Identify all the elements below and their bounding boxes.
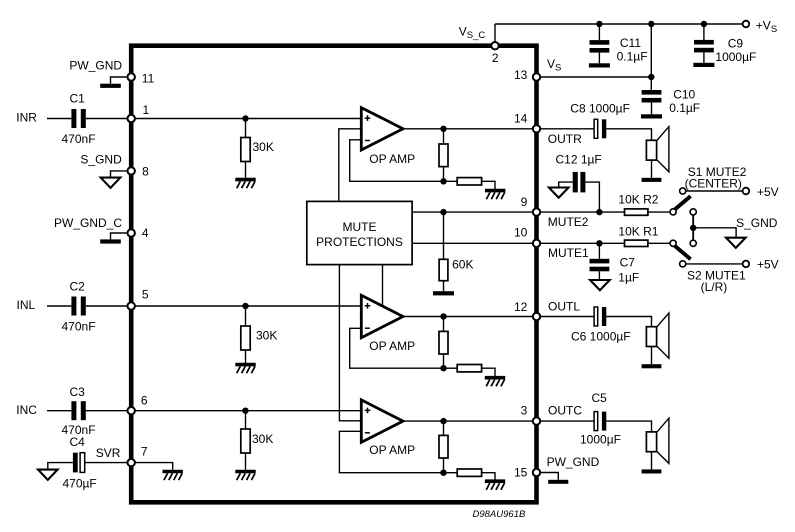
- wire U2 fb resistor bottom lead: [443, 354, 445, 368]
- wire U1 fb resistor top lead: [443, 129, 445, 144]
- resistor 30K (INC): [241, 429, 250, 453]
- pin 4: [128, 229, 135, 236]
- svg-text:(CENTER): (CENTER): [685, 176, 742, 190]
- wire 30K R bottom lead: [245, 162, 247, 178]
- svg-text:OP AMP: OP AMP: [369, 339, 415, 353]
- node junction C7/MUTE1: [596, 240, 602, 246]
- wire INR to C1: [47, 118, 71, 120]
- ground C12 (triangle): [549, 188, 569, 198]
- svg-text:8: 8: [142, 165, 149, 179]
- op-amp U3: [361, 400, 403, 442]
- ground U1 feedback (hatched): [485, 189, 505, 193]
- capacitor C10: [642, 90, 662, 95]
- ground PW_GND pin11 (bar): [100, 84, 121, 88]
- svg-text:INR: INR: [16, 111, 37, 125]
- svg-text:C3: C3: [70, 385, 86, 399]
- switch S1 blade: [675, 196, 691, 210]
- pin 10: [533, 240, 540, 247]
- capacitor C12: [573, 172, 578, 193]
- resistor U2 to ground (horizontal): [457, 365, 481, 372]
- wire U1 fb resistor bottom lead: [443, 167, 445, 182]
- svg-text:5: 5: [142, 287, 149, 301]
- wire 60K top lead: [443, 212, 445, 259]
- pin 6: [128, 407, 135, 414]
- wire pin4 to ground: [111, 233, 128, 239]
- svg-text:10K R1: 10K R1: [618, 224, 658, 238]
- wire +Vs top rail: [495, 23, 743, 25]
- wire U3 feedback to -input: [339, 431, 443, 472]
- wire U2 fb resistor top lead: [443, 317, 445, 332]
- wire S2 to +5V: [686, 263, 743, 265]
- ground U2 feedback (hatched): [485, 376, 505, 380]
- wire C9 bottom lead: [703, 52, 705, 62]
- resistor U1 feedback (vertical): [439, 144, 448, 167]
- svg-text:470µF: 470µF: [63, 476, 97, 490]
- svg-text:C6 1000µF: C6 1000µF: [571, 330, 631, 344]
- wire C6 to speaker L: [606, 317, 651, 327]
- svg-text:30K: 30K: [252, 432, 273, 446]
- wire U3 output to pin3: [403, 420, 533, 422]
- svg-text:PW_GND: PW_GND: [547, 455, 600, 469]
- pin 14: [533, 125, 540, 132]
- wire SVR ground to C4: [48, 463, 73, 470]
- wire U3 gnd resistor to ground: [482, 473, 495, 480]
- svg-text:C11: C11: [620, 36, 641, 50]
- terminal +Vs: [743, 21, 750, 28]
- svg-text:(L/R): (L/R): [701, 280, 728, 294]
- node junction 60K tap: [440, 209, 446, 215]
- ground S_GND pin8 (triangle): [101, 178, 121, 188]
- svg-text:12: 12: [514, 300, 528, 314]
- svg-text:PW_GND: PW_GND: [69, 58, 122, 72]
- pin 3: [533, 417, 540, 424]
- svg-text:2: 2: [492, 51, 499, 65]
- svg-text:INC: INC: [16, 403, 37, 417]
- svg-text:D98AU961B: D98AU961B: [473, 509, 526, 520]
- wire switch common column: [692, 215, 694, 240]
- wire 60K bottom lead: [443, 281, 445, 292]
- svg-text:470nF: 470nF: [62, 319, 96, 333]
- wire C5 to speaker C: [606, 421, 651, 432]
- wire 30K C bottom lead: [245, 453, 247, 470]
- switch S2 throw contact +5V: [680, 261, 686, 267]
- wire pin11 to ground: [111, 77, 128, 84]
- wire pin8 to ground: [111, 171, 128, 178]
- svg-text:OP AMP: OP AMP: [369, 443, 415, 457]
- pin 9: [533, 208, 540, 215]
- svg-text:1000µF: 1000µF: [580, 433, 621, 447]
- svg-text:PROTECTIONS: PROTECTIONS: [316, 235, 403, 249]
- node junction C12/MUTE2: [596, 209, 602, 215]
- pin 2: [491, 42, 498, 49]
- node junction VS/C10: [648, 74, 654, 80]
- pin 5: [128, 302, 135, 309]
- svg-text:60K: 60K: [452, 257, 473, 271]
- block MUTE PROTECTIONS: [307, 201, 412, 264]
- svg-text:1000µF: 1000µF: [715, 50, 756, 64]
- capacitor C9: [694, 40, 714, 45]
- terminal +5V (S1): [743, 188, 750, 195]
- pin 7: [128, 459, 135, 466]
- svg-text:OUTR: OUTR: [548, 132, 582, 146]
- wire pin5 to opamp U2 +input: [135, 305, 361, 307]
- wire U2 feedback to -input: [350, 328, 444, 368]
- wire pin9 to R2: [540, 211, 624, 213]
- wire pin1 to opamp U1 +input: [135, 118, 361, 120]
- pin 11: [128, 73, 135, 80]
- ground 30K INC (hatched): [235, 470, 255, 474]
- wire pin15 to ground: [540, 473, 558, 480]
- wire C4 to pin7: [85, 462, 128, 464]
- svg-text:15: 15: [514, 465, 528, 479]
- node junction rail/C11: [596, 21, 602, 27]
- svg-text:1µF: 1µF: [618, 271, 639, 285]
- wire MUTE1 node to C7: [598, 243, 600, 258]
- speaker OUTC: [657, 418, 669, 463]
- svg-text:11: 11: [142, 71, 155, 85]
- wire pin2 stem to +Vs rail: [494, 24, 496, 46]
- svg-text:SVR: SVR: [96, 446, 121, 460]
- svg-text:14: 14: [514, 111, 528, 125]
- capacitor C3: [71, 401, 76, 420]
- ground 30K INL (hatched): [235, 363, 255, 367]
- ground C10 (bar): [641, 114, 662, 118]
- capacitor C1: [71, 109, 76, 128]
- wire U3 fb resistor bottom lead: [443, 458, 445, 473]
- wire R2 to switch S1: [648, 211, 670, 213]
- resistor 60K: [439, 259, 448, 280]
- pin 12: [533, 313, 540, 320]
- wire U2 fb node to gnd resistor: [444, 367, 458, 369]
- ground C9 (bar): [693, 63, 714, 67]
- wire U1 gnd resistor to ground: [482, 181, 495, 189]
- switch S1 lower throw contact: [690, 209, 696, 215]
- pin 15: [533, 469, 540, 476]
- switch S1 pole contact: [670, 209, 676, 215]
- wire 30K L top lead: [245, 306, 247, 326]
- wire mute box to pin10: [412, 242, 533, 244]
- node U2 output/feedback: [440, 313, 446, 319]
- pin 13: [533, 73, 540, 80]
- switch S2 upper throw contact: [690, 240, 696, 246]
- ground pin7 (hatched): [163, 470, 183, 474]
- wire to S_GND: [693, 228, 736, 238]
- wire C12 left to ground: [559, 182, 573, 187]
- wire C7 to ground: [598, 271, 600, 280]
- node U3 feedback node: [440, 470, 446, 476]
- capacitor C7: [590, 259, 610, 264]
- speaker OUTR: [657, 127, 669, 172]
- node junction rail/C9: [701, 21, 707, 27]
- wire mute box to opamp U2: [382, 265, 384, 307]
- ground C7 (triangle): [590, 280, 610, 290]
- svg-text:10: 10: [514, 225, 528, 239]
- op-amp U2: [361, 295, 403, 337]
- wire C8 to speaker R: [606, 129, 651, 141]
- IC package outline (power amplifier): [131, 46, 536, 503]
- node U2 feedback node: [440, 365, 446, 371]
- wire pin7 to internal ground: [135, 463, 173, 470]
- node U3 output/feedback: [440, 418, 446, 424]
- svg-text:9: 9: [521, 195, 528, 209]
- wire R1 to switch S2: [648, 242, 670, 244]
- wire C10 bottom lead: [651, 103, 653, 115]
- svg-text:MUTE1: MUTE1: [548, 246, 589, 260]
- svg-text:OUTC: OUTC: [548, 404, 582, 418]
- capacitor C4 (polarized): [73, 453, 78, 473]
- node junction rail/C10 column: [648, 21, 654, 27]
- svg-text:C5: C5: [592, 391, 608, 405]
- svg-text:C8 1000µF: C8 1000µF: [570, 102, 630, 116]
- ground 30K INR (hatched): [235, 178, 255, 182]
- ground PW_GND_C pin4 (bar): [100, 239, 121, 243]
- svg-text:MUTE: MUTE: [343, 220, 377, 234]
- svg-text:PW_GND_C: PW_GND_C: [54, 216, 122, 230]
- svg-text:C4: C4: [70, 435, 86, 449]
- ground C11 (bar): [589, 63, 610, 67]
- wire C3 to pin6: [86, 410, 128, 412]
- svg-text:C12 1µF: C12 1µF: [556, 152, 602, 166]
- resistor U3 feedback (vertical): [439, 435, 448, 458]
- capacitor C11: [590, 40, 610, 45]
- svg-text:1: 1: [143, 103, 150, 117]
- terminal +5V (S2): [743, 261, 750, 268]
- node junction INL/30K: [242, 303, 248, 309]
- node junction INR/30K: [242, 115, 248, 121]
- ground U3 feedback (hatched): [485, 479, 505, 483]
- wire 30K L bottom lead: [245, 350, 247, 363]
- wire INL to C2: [47, 305, 71, 307]
- svg-text:C1: C1: [70, 92, 86, 106]
- wire rail to C10: [650, 24, 652, 90]
- capacitor C5 (polarized): [594, 412, 598, 431]
- ground 60K (bar): [433, 291, 454, 295]
- wire U1 feedback to -input: [350, 140, 444, 182]
- svg-text:S_GND: S_GND: [80, 153, 122, 167]
- svg-text:C9: C9: [728, 36, 744, 50]
- svg-text:MUTE2: MUTE2: [548, 215, 589, 229]
- resistor R1 10K: [625, 240, 648, 246]
- svg-text:OP AMP: OP AMP: [369, 152, 415, 166]
- pin 1: [128, 115, 135, 122]
- capacitor C6 (polarized): [594, 307, 598, 326]
- svg-text:3: 3: [521, 403, 528, 417]
- node junction switch S_GND: [690, 225, 696, 231]
- wire U2 gnd resistor to ground: [482, 368, 495, 376]
- svg-text:10K R2: 10K R2: [618, 192, 658, 206]
- wire U3 fb resistor top lead: [443, 421, 445, 435]
- wire U1 output to pin14: [403, 128, 533, 130]
- wire pin12 to C6: [540, 316, 594, 318]
- node U1 output/feedback: [440, 126, 446, 132]
- switch S2 pole contact: [670, 240, 676, 246]
- svg-text:470nF: 470nF: [62, 132, 96, 146]
- svg-text:C10: C10: [673, 88, 695, 102]
- wire C11 top lead: [598, 24, 600, 40]
- svg-text:INL: INL: [17, 298, 36, 312]
- svg-text:4: 4: [142, 226, 149, 240]
- wire 30K R top lead: [245, 119, 247, 138]
- wire C12 right to MUTE2 node: [585, 182, 599, 212]
- ground switches S_GND (triangle): [726, 238, 746, 248]
- wire 30K C top lead: [245, 411, 247, 429]
- ground PW_GND pin15 (bar): [548, 480, 568, 484]
- svg-text:13: 13: [514, 68, 528, 82]
- switch S2 blade: [675, 246, 691, 260]
- wire U3 fb node to gnd resistor: [444, 472, 458, 474]
- resistor 30K (INL): [241, 326, 250, 350]
- svg-text:0.1µF: 0.1µF: [669, 101, 700, 115]
- wire U2 output to pin12: [403, 316, 533, 318]
- svg-text:C2: C2: [70, 279, 86, 293]
- wire U1 fb node to gnd resistor: [444, 180, 458, 182]
- speaker OUTL: [657, 313, 669, 358]
- svg-text:+5V: +5V: [757, 185, 779, 199]
- node junction INC/30K: [242, 408, 248, 414]
- wire C9 top lead: [703, 24, 705, 40]
- wire mute box to pin9: [412, 211, 533, 213]
- resistor U3 to ground (horizontal): [457, 469, 481, 476]
- ground SVR (triangle): [38, 470, 58, 480]
- resistor R2 10K: [625, 209, 648, 215]
- svg-text:C7: C7: [620, 255, 636, 269]
- wire pin10 to R1: [540, 242, 624, 244]
- wire mute box to opamp U3: [339, 265, 360, 421]
- resistor U1 to ground (horizontal): [457, 178, 481, 185]
- svg-text:30K: 30K: [253, 140, 274, 154]
- wire C1 to pin1: [86, 118, 128, 120]
- svg-text:6: 6: [141, 393, 148, 407]
- wire pin13 VS to C10 node: [540, 76, 651, 78]
- wire pin3 to C5: [540, 420, 594, 422]
- switch S1 throw contact +5V: [680, 188, 686, 194]
- resistor 30K (INR): [241, 138, 250, 162]
- pin 8: [128, 167, 135, 174]
- wire pin14 to C8: [540, 128, 594, 130]
- wire C11 bottom lead: [598, 53, 600, 64]
- resistor U2 feedback (vertical): [439, 331, 448, 354]
- capacitor C2: [71, 297, 76, 316]
- wire mute box to opamp U1: [339, 129, 360, 202]
- op-amp U1: [361, 108, 403, 150]
- node U1 feedback node: [440, 178, 446, 184]
- wire C2 to pin5: [86, 305, 128, 307]
- capacitor C8 (polarized): [594, 119, 598, 138]
- svg-text:7: 7: [141, 444, 148, 458]
- svg-text:+5V: +5V: [757, 258, 779, 272]
- wire pin6 to opamp U3 +input: [135, 410, 361, 412]
- svg-text:0.1µF: 0.1µF: [617, 50, 648, 64]
- svg-text:OUTL: OUTL: [548, 300, 580, 314]
- svg-text:S_GND: S_GND: [736, 216, 778, 230]
- wire S1 to +5V: [686, 190, 743, 192]
- svg-text:30K: 30K: [256, 329, 277, 343]
- wire INC to C3: [47, 410, 71, 412]
